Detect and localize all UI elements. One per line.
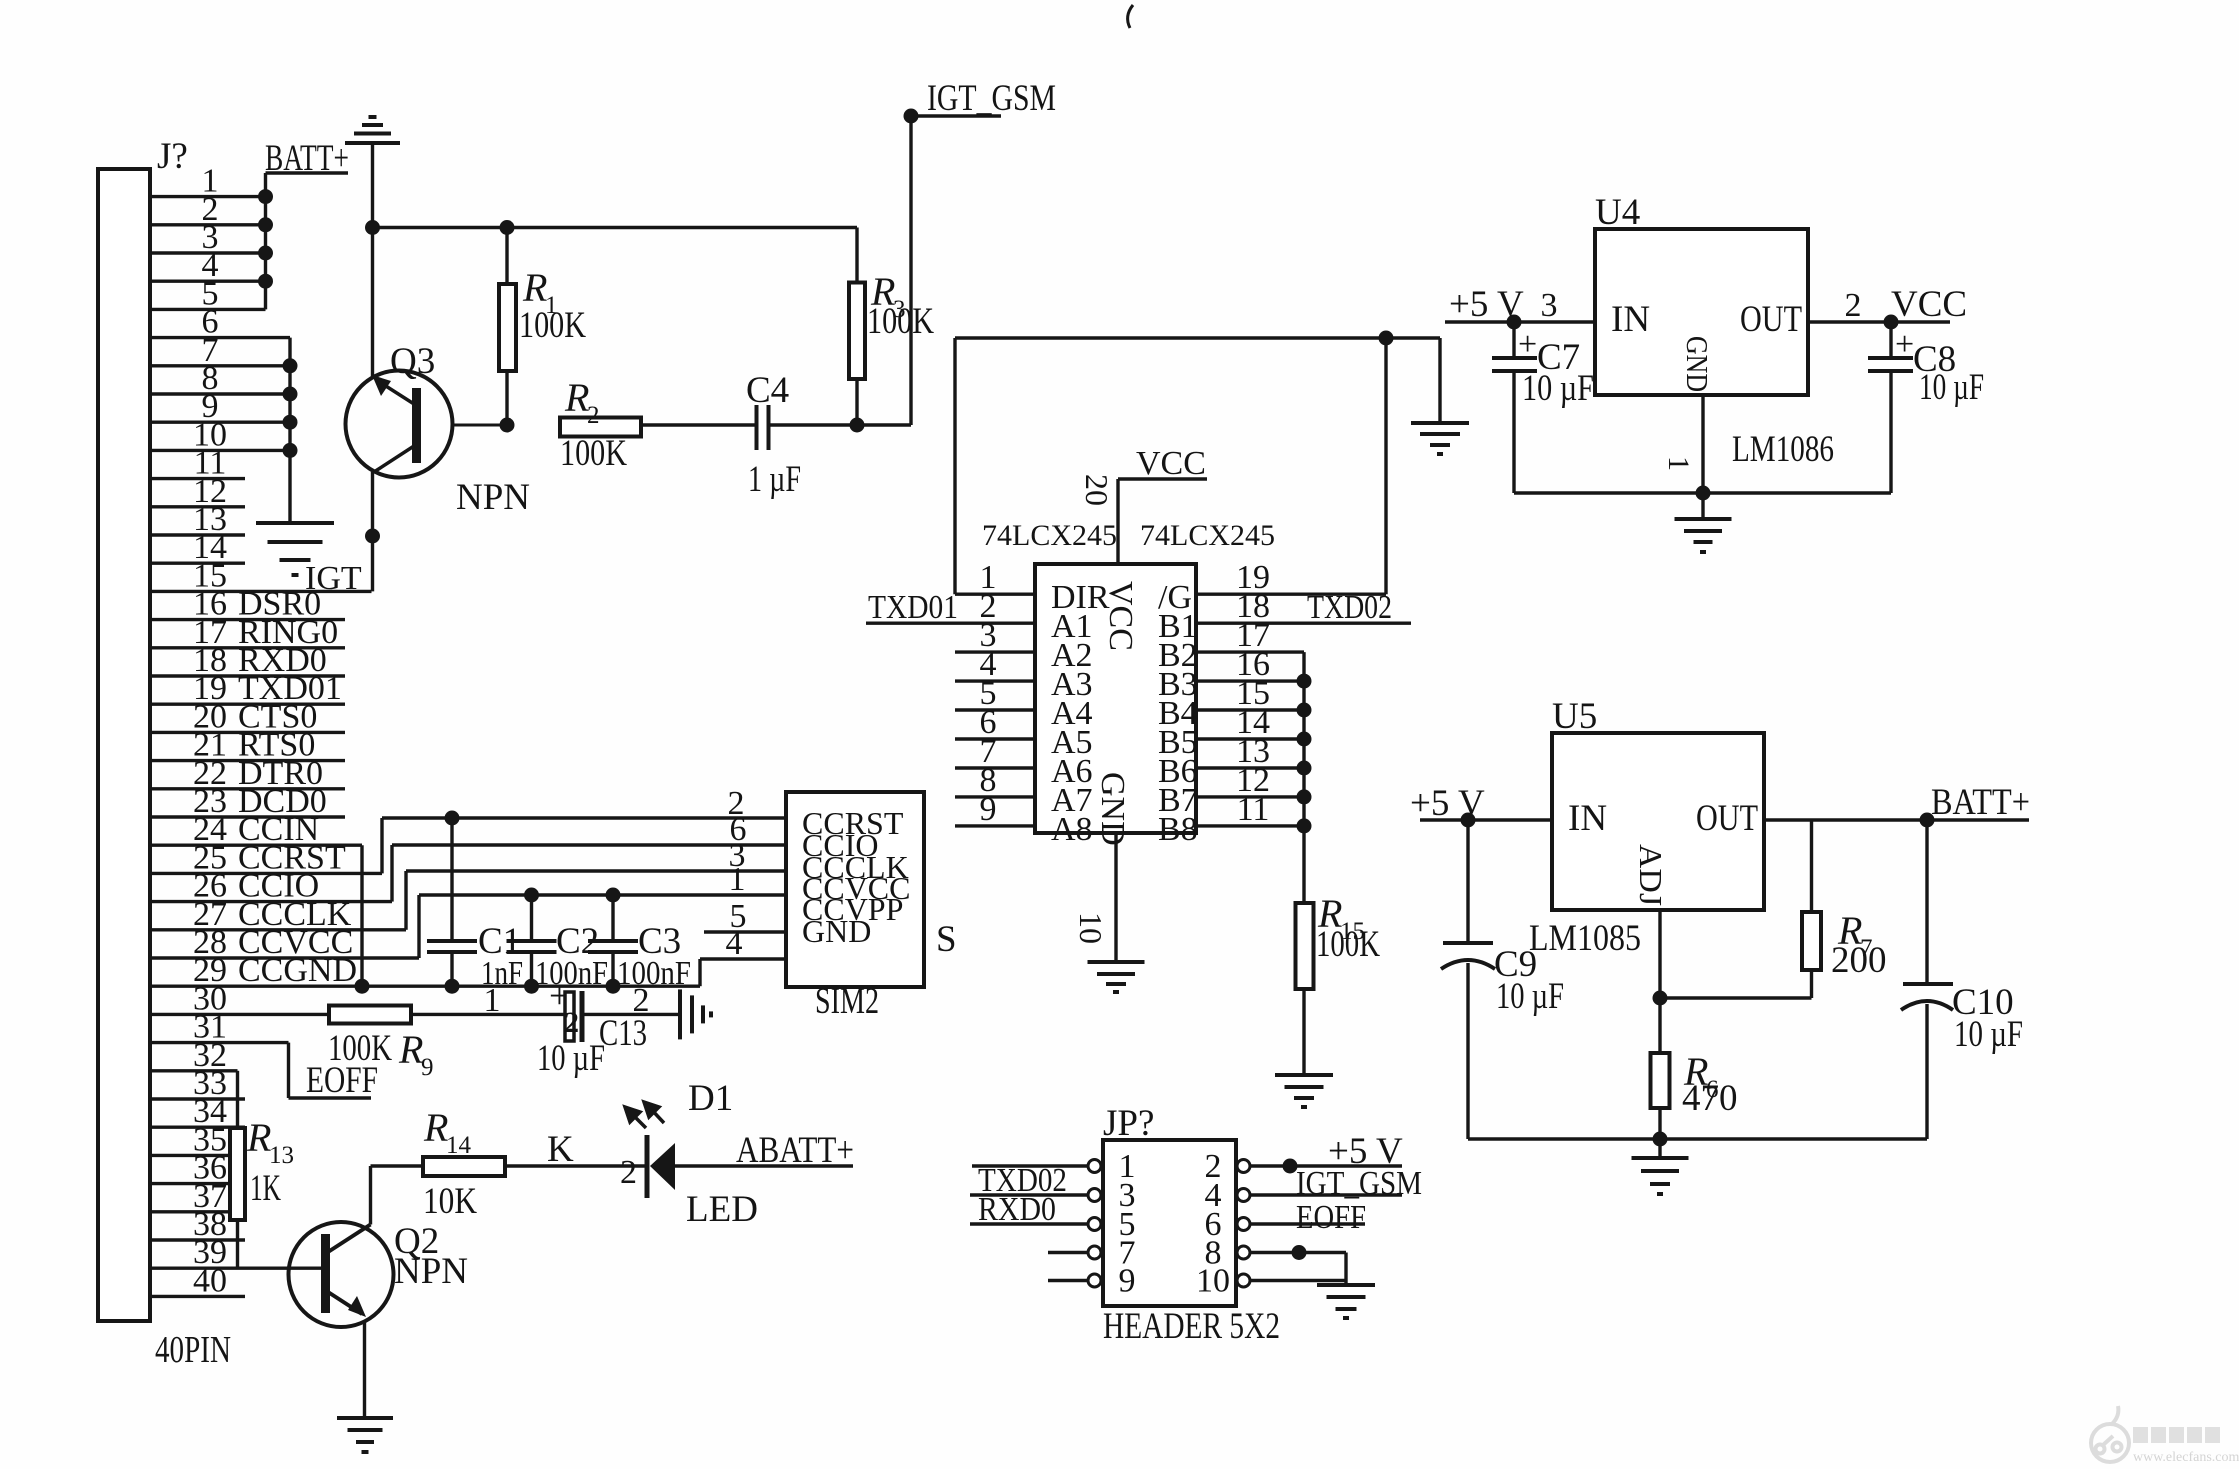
ground (U5)	[1632, 1158, 1689, 1194]
svg-text:LM1085: LM1085	[1529, 918, 1641, 959]
svg-text:A8: A8	[1051, 811, 1093, 848]
connector J? 40PIN body	[98, 169, 150, 1321]
wire JP pin8	[1250, 1251, 1346, 1254]
value C8 10uF	[1884, 315, 1899, 330]
svg-text:1: 1	[729, 861, 746, 898]
svg-text:VCC: VCC	[1102, 581, 1139, 651]
svg-text:EOFF: EOFF	[1296, 1199, 1366, 1236]
wire pin 29	[150, 985, 700, 988]
wire pin 2	[150, 223, 266, 226]
wire pin 15	[150, 590, 372, 593]
svg-text:9: 9	[980, 791, 997, 828]
wire jog GND	[698, 959, 701, 986]
wire pin 17 (B2)	[1196, 650, 1304, 653]
wire BATT+ bus vertical	[264, 173, 267, 309]
svg-text:GND: GND	[1680, 336, 1715, 392]
svg-text:+: +	[1518, 326, 1537, 363]
wire R9 to C13	[411, 1013, 565, 1016]
svg-text:Q3: Q3	[390, 341, 435, 382]
wire ground bus pins 6-10	[288, 338, 291, 522]
transistor Q2	[289, 1222, 394, 1327]
JP pin 7 circle	[1237, 1246, 1250, 1259]
svg-text:R: R	[398, 1027, 423, 1072]
wire R3 top	[855, 228, 858, 283]
wire to ground	[1438, 338, 1441, 421]
U5 body	[1552, 733, 1764, 910]
wire pin 2 (A1)	[866, 622, 1035, 625]
wire +5V to U5 IN	[1420, 818, 1552, 821]
capacitor C8	[1889, 322, 1892, 358]
svg-text:9: 9	[1119, 1263, 1136, 1300]
wire pin 35	[150, 1154, 245, 1157]
svg-text:CCGND: CCGND	[238, 952, 357, 989]
ground (C13, rotated)	[680, 989, 711, 1039]
wire pin 15 (B4)	[1196, 708, 1304, 711]
svg-text:IGT_GSM: IGT_GSM	[1296, 1165, 1422, 1202]
wire to ground	[1658, 1139, 1661, 1157]
wire SIM2 pin1 CCVCC	[419, 893, 786, 896]
svg-text:IGT: IGT	[305, 560, 362, 597]
wire SIM2 pin4 GND	[700, 957, 786, 960]
svg-text:NPN: NPN	[394, 1251, 468, 1292]
wire IGT_GSM underline	[911, 114, 1001, 117]
svg-text:1: 1	[484, 982, 501, 1019]
transistor Q3	[346, 371, 508, 478]
svg-text:RXD0: RXD0	[978, 1191, 1056, 1228]
svg-text:1 µF: 1 µF	[748, 459, 801, 500]
wire pin 8	[150, 392, 290, 395]
wire pin 30	[150, 1013, 329, 1016]
wire OUT to VCC	[1808, 320, 1950, 323]
svg-text:U5: U5	[1552, 696, 1597, 737]
wire JP pin6 EOFF	[1250, 1222, 1365, 1225]
wire pin 20	[150, 731, 345, 734]
wire pin 18 (B1)	[1196, 622, 1411, 625]
wire pin32 to R13	[236, 1071, 239, 1128]
wire pin 11	[150, 477, 245, 480]
svg-text:100K: 100K	[867, 301, 934, 342]
svg-text:2: 2	[1845, 287, 1862, 324]
wire jog CCCLK	[404, 871, 407, 930]
svg-text:SIM2: SIM2	[815, 981, 879, 1022]
svg-text:BATT+: BATT+	[1931, 782, 2030, 823]
svg-text:IGT_GSM: IGT_GSM	[927, 78, 1056, 119]
svg-text:J?: J?	[157, 136, 188, 177]
svg-text:100K: 100K	[1316, 924, 1380, 965]
wire pin 38	[150, 1238, 245, 1241]
ground (74LCX245 /G)	[1411, 423, 1469, 454]
svg-text:100nF: 100nF	[617, 955, 691, 992]
capacitor C10	[1925, 820, 1928, 984]
wire pin 5	[150, 308, 266, 311]
wire pin 32	[150, 1069, 238, 1072]
svg-text:R: R	[423, 1105, 448, 1150]
svg-text:40: 40	[193, 1262, 227, 1299]
svg-text:10 µF: 10 µF	[1522, 368, 1594, 409]
wire JP pin5 RXD0	[970, 1222, 1088, 1225]
wire Q3 to IGT	[371, 472, 374, 591]
svg-text:LED: LED	[686, 1189, 758, 1230]
svg-text:200: 200	[1831, 940, 1887, 981]
wire pin 14 (B5)	[1196, 737, 1304, 740]
svg-text:13: 13	[269, 1142, 294, 1169]
svg-text:U4: U4	[1595, 192, 1640, 233]
wire pin 26	[150, 900, 392, 903]
resistor R9	[329, 1006, 411, 1024]
wire U5 ground rail	[1468, 1137, 1927, 1140]
wire pin 12	[150, 505, 245, 508]
wire C13 to ground	[582, 1013, 680, 1016]
svg-text:470: 470	[1682, 1078, 1738, 1119]
wire EOFF underline	[289, 1096, 372, 1099]
svg-text:GND: GND	[1094, 772, 1131, 846]
wire SIM2 pin2 CCRST	[382, 816, 786, 819]
wire pin 10	[150, 449, 290, 452]
wire pin 3 (A2)	[955, 650, 1035, 653]
resistor R13	[230, 1128, 245, 1220]
capacitor C3	[611, 895, 614, 941]
wire SIM2 pin5 CCVPP	[704, 930, 786, 933]
LED D1	[645, 1135, 650, 1198]
wire JP pin7	[1048, 1251, 1088, 1254]
svg-text:TXD01: TXD01	[868, 589, 958, 626]
ground (pins 7-10)	[256, 523, 334, 575]
wire pin20 VCC	[1116, 479, 1119, 564]
wire top ground to Q3 collector	[371, 143, 374, 377]
wire U5 OUT to BATT+	[1764, 818, 2029, 821]
svg-text:1: 1	[1662, 456, 1695, 471]
svg-text:K: K	[547, 1129, 574, 1170]
wire JP8-10 jog	[1344, 1253, 1347, 1285]
wire R1 top	[505, 228, 508, 285]
wire pin 4	[150, 280, 266, 283]
svg-text:C13: C13	[599, 1013, 647, 1054]
wire R2 to C4	[641, 423, 757, 426]
wire pin 6	[150, 336, 290, 339]
capacitor C13	[565, 992, 574, 1041]
svg-text:TXD02: TXD02	[1307, 589, 1392, 626]
capacitor C7	[1512, 322, 1515, 358]
JP pin 9 circle	[1237, 1274, 1250, 1287]
resistor R7	[1802, 912, 1821, 970]
wire R13 to base	[236, 1220, 239, 1268]
wire Q2 emitter to ground	[363, 1321, 366, 1417]
ground (R15)	[1275, 1075, 1333, 1107]
wire pin10 GND	[1114, 833, 1117, 961]
svg-text:IN: IN	[1568, 798, 1607, 839]
svg-text:2: 2	[587, 402, 600, 429]
wire R15 to ground	[1302, 989, 1305, 1074]
wire U4 GND pin	[1701, 395, 1704, 493]
wire JP pin10	[1250, 1279, 1346, 1282]
resistor R6	[1651, 1053, 1670, 1108]
wire pin 37	[150, 1210, 245, 1213]
JP pin 5 circle	[1237, 1218, 1250, 1231]
wire pin 21	[150, 759, 345, 762]
wire pin 17	[150, 646, 345, 649]
wire pin 25	[150, 872, 382, 875]
svg-text:HEADER 5X2: HEADER 5X2	[1103, 1306, 1280, 1347]
capacitor C2	[530, 895, 533, 941]
resistor R2	[560, 418, 641, 437]
svg-text:VCC: VCC	[1136, 445, 1206, 482]
svg-text:10 µF: 10 µF	[1919, 367, 1984, 408]
wire pin 19 (/G)	[1196, 593, 1386, 596]
wire pin 11 (B8)	[1196, 824, 1304, 827]
svg-text:3: 3	[1541, 287, 1558, 324]
wire pin 1	[150, 195, 266, 198]
wire pin 22	[150, 787, 345, 790]
svg-text:10: 10	[1073, 912, 1109, 944]
wire JP pin3 TXD02	[970, 1193, 1088, 1196]
svg-text:R: R	[564, 375, 589, 420]
ground (Q2)	[337, 1418, 393, 1452]
wire pin 13	[150, 533, 245, 536]
wire R14 left	[371, 1164, 424, 1167]
wire pin 4 (A3)	[955, 679, 1035, 682]
svg-text:OUT: OUT	[1696, 798, 1758, 839]
svg-text:10 µF: 10 µF	[1954, 1014, 2023, 1055]
svg-text:R: R	[522, 265, 547, 310]
ground (pin10)	[1088, 962, 1145, 992]
svg-text:74LCX245: 74LCX245	[982, 519, 1117, 552]
svg-text:14: 14	[446, 1132, 472, 1159]
JP body	[1103, 1140, 1236, 1306]
wire pin 7 (A6)	[955, 766, 1035, 769]
svg-text:2: 2	[620, 1154, 637, 1191]
svg-text:+: +	[1895, 326, 1914, 363]
capacitor C4	[757, 405, 769, 450]
wire OUT to R7	[1810, 820, 1813, 912]
svg-text:10 µF: 10 µF	[537, 1038, 605, 1079]
wire +5V to IN	[1445, 320, 1595, 323]
U4 body	[1595, 229, 1808, 395]
scan tick mark	[1128, 5, 1133, 28]
wire ADJ to R6	[1658, 910, 1661, 1053]
wire pin 12 (B7)	[1196, 795, 1304, 798]
capacitor C9	[1466, 820, 1469, 943]
wire pin 9 (A8)	[955, 824, 1035, 827]
resistor R3	[849, 283, 865, 380]
watermark logo	[2091, 1406, 2129, 1462]
wire pin 6 (A5)	[955, 737, 1035, 740]
JP pin 3 circle	[1237, 1189, 1250, 1202]
svg-text:11: 11	[1237, 791, 1270, 828]
wire JP pin9	[1048, 1279, 1088, 1282]
wire JP pin1	[972, 1164, 1088, 1167]
svg-text:20: 20	[1079, 474, 1115, 506]
svg-text:2: 2	[564, 1006, 579, 1039]
svg-text:GND: GND	[802, 913, 871, 949]
wire pin 7	[150, 364, 290, 367]
svg-text:10 µF: 10 µF	[1496, 976, 1564, 1017]
JP pin 1 circle	[1237, 1160, 1250, 1173]
wire pin 33	[150, 1097, 245, 1100]
wire pin 31	[150, 1041, 289, 1044]
wire pin 28	[150, 956, 419, 959]
resistor R14	[423, 1157, 505, 1176]
svg-text:C4: C4	[746, 370, 789, 411]
svg-text:1K: 1K	[250, 1168, 281, 1209]
svg-text:B8: B8	[1158, 811, 1198, 848]
ground (top, inverted)	[345, 117, 400, 143]
wire U4 ground rail	[1514, 491, 1891, 494]
wire jog CCIO	[390, 845, 393, 902]
wire pin 24	[150, 844, 362, 847]
IC body 74LCX245	[1035, 564, 1196, 833]
svg-text:EOFF: EOFF	[306, 1060, 378, 1101]
capacitor C1	[450, 818, 453, 941]
wire JP pin2 +5V	[1250, 1164, 1402, 1167]
resistor R15	[1296, 903, 1314, 989]
svg-text:S: S	[936, 919, 957, 960]
svg-text:74LCX245: 74LCX245	[1140, 519, 1275, 552]
wire bus to R15	[1302, 652, 1305, 903]
wire pin 8 (A7)	[955, 795, 1035, 798]
wire SIM2 pin6 CCIO	[392, 843, 786, 846]
wire pin 3	[150, 251, 266, 254]
wire pin19 vertical	[1384, 338, 1387, 594]
wire R1 bottom	[505, 371, 508, 425]
svg-text:9: 9	[421, 1054, 434, 1081]
ground (U4)	[1675, 519, 1732, 552]
wire pin 34	[150, 1125, 245, 1128]
svg-text:JP?: JP?	[1103, 1103, 1154, 1144]
wire to ground	[1701, 493, 1704, 518]
svg-text:10: 10	[1196, 1263, 1230, 1300]
wire pin 39	[150, 1266, 322, 1269]
svg-text:ADJ: ADJ	[1633, 844, 1669, 906]
svg-text:www.elecfans.com: www.elecfans.com	[2133, 1450, 2239, 1465]
svg-text:40PIN: 40PIN	[155, 1329, 231, 1371]
wire CCIN to CCGND	[360, 845, 363, 986]
wire pin 18	[150, 674, 345, 677]
wire BATT+ rail to R3	[374, 226, 858, 229]
wire R7 to ADJ	[1660, 996, 1812, 999]
wire SIM2 pin3 CCCLK	[406, 869, 786, 872]
svg-text:IN: IN	[1611, 299, 1650, 340]
svg-text:4: 4	[726, 925, 743, 962]
wire pin 9	[150, 421, 290, 424]
svg-text:NPN: NPN	[456, 477, 530, 518]
wire R7 bottom	[1810, 970, 1813, 998]
wire 74LCX245 pin1/pin19 top rail	[955, 336, 1440, 339]
wire pin 16	[150, 618, 345, 621]
wire pin 27	[150, 928, 406, 931]
svg-text:100K: 100K	[519, 305, 586, 346]
wire pin1 vertical	[953, 338, 956, 594]
wire pin 1 (DIR)	[955, 593, 1035, 596]
wire C4 to IGT_GSM	[769, 423, 912, 426]
wire pin 23	[150, 815, 345, 818]
wire jog CCVCC	[417, 895, 420, 958]
wire jog CCRST	[380, 818, 383, 873]
resistor R1	[499, 284, 516, 371]
wire pin 16 (B3)	[1196, 679, 1304, 682]
wire IGT_GSM vertical	[909, 116, 912, 425]
ground (JP)	[1317, 1285, 1375, 1318]
wire Q2 collector to R14	[369, 1166, 372, 1225]
wire VCC underline	[1118, 477, 1207, 480]
wire pin 19	[150, 703, 345, 706]
wire BATT+ underline	[266, 171, 349, 174]
svg-text:10K: 10K	[423, 1181, 477, 1222]
wire pin 36	[150, 1182, 245, 1185]
wire pin 40	[150, 1295, 245, 1298]
svg-text:100K: 100K	[560, 433, 627, 474]
wire pin 14	[150, 562, 245, 565]
SIM2 body	[786, 792, 924, 987]
wire R3 bottom	[855, 379, 858, 425]
wire LED to ABATT+	[675, 1164, 853, 1167]
wire JP pin4 IGT_GSM	[1250, 1193, 1402, 1196]
wire R6 bottom	[1658, 1108, 1661, 1139]
wire R14 to LED	[505, 1164, 646, 1167]
svg-text:LM1086: LM1086	[1732, 429, 1834, 470]
watermark text	[2133, 1427, 2220, 1443]
svg-text:VCC: VCC	[1891, 284, 1967, 325]
svg-text:D1: D1	[688, 1078, 733, 1119]
svg-text:OUT: OUT	[1740, 299, 1802, 340]
wire pin 5 (A4)	[955, 708, 1035, 711]
wire pin 13 (B6)	[1196, 766, 1304, 769]
svg-text:100nF: 100nF	[535, 955, 608, 992]
wire EOFF vertical	[287, 1043, 290, 1098]
svg-text:R: R	[246, 1115, 271, 1160]
svg-text:ABATT+: ABATT+	[736, 1130, 854, 1171]
